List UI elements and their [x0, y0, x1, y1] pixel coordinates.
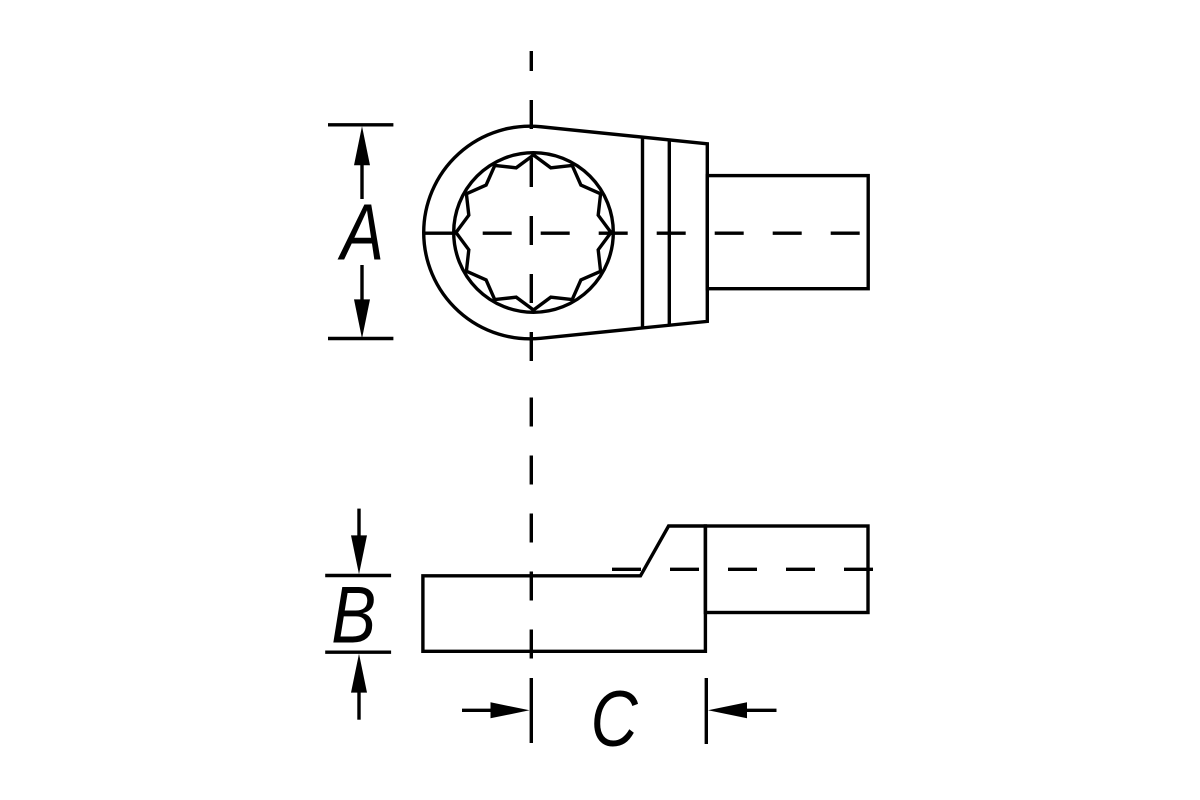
svg-text:C: C [591, 674, 639, 762]
side view: vertical centerline [530, 398, 533, 662]
dimension C: left extension line [530, 678, 533, 743]
dimension B: bottom tick [325, 651, 391, 654]
dimension B: lower shaft [357, 692, 360, 720]
top view: horizontal centerline [425, 231, 860, 234]
dimension C: right arrow shaft [747, 709, 777, 712]
top view: vertical centerline [530, 51, 533, 371]
svg-text:B: B [331, 570, 376, 660]
dimension B: bottom arrowhead [351, 654, 367, 693]
dimension A: bottom tick [328, 337, 393, 340]
top view: neck groove line 2 [668, 140, 671, 325]
dimension B: top arrowhead [351, 535, 367, 574]
dimension C: right extension line [705, 678, 708, 744]
dimension B: upper shaft [357, 509, 360, 537]
top view: ring bore circle [454, 153, 614, 313]
svg-text:A: A [337, 188, 384, 277]
dimension A: top tick [328, 123, 393, 126]
side view: wrench body [423, 526, 706, 651]
dimension B: top tick [325, 574, 391, 577]
top view: neck groove line 1 [641, 137, 644, 328]
dimension A: upper shaft [360, 164, 363, 199]
top view: square tang (front) [707, 176, 868, 289]
dimension C: right arrowhead [708, 702, 747, 718]
side view: tang centerline [612, 568, 873, 571]
dimension A: top arrowhead [354, 126, 370, 165]
dimension C: left arrow shaft [462, 709, 493, 712]
top view: 12-point socket profile [456, 155, 611, 310]
dimension C: left arrowhead [491, 702, 530, 718]
side view: square tang (side) [705, 526, 868, 613]
dimension A: lower shaft [360, 265, 363, 301]
top view: outer ring profile with tapered neck [424, 126, 708, 339]
dimension A: bottom arrowhead [354, 299, 370, 338]
